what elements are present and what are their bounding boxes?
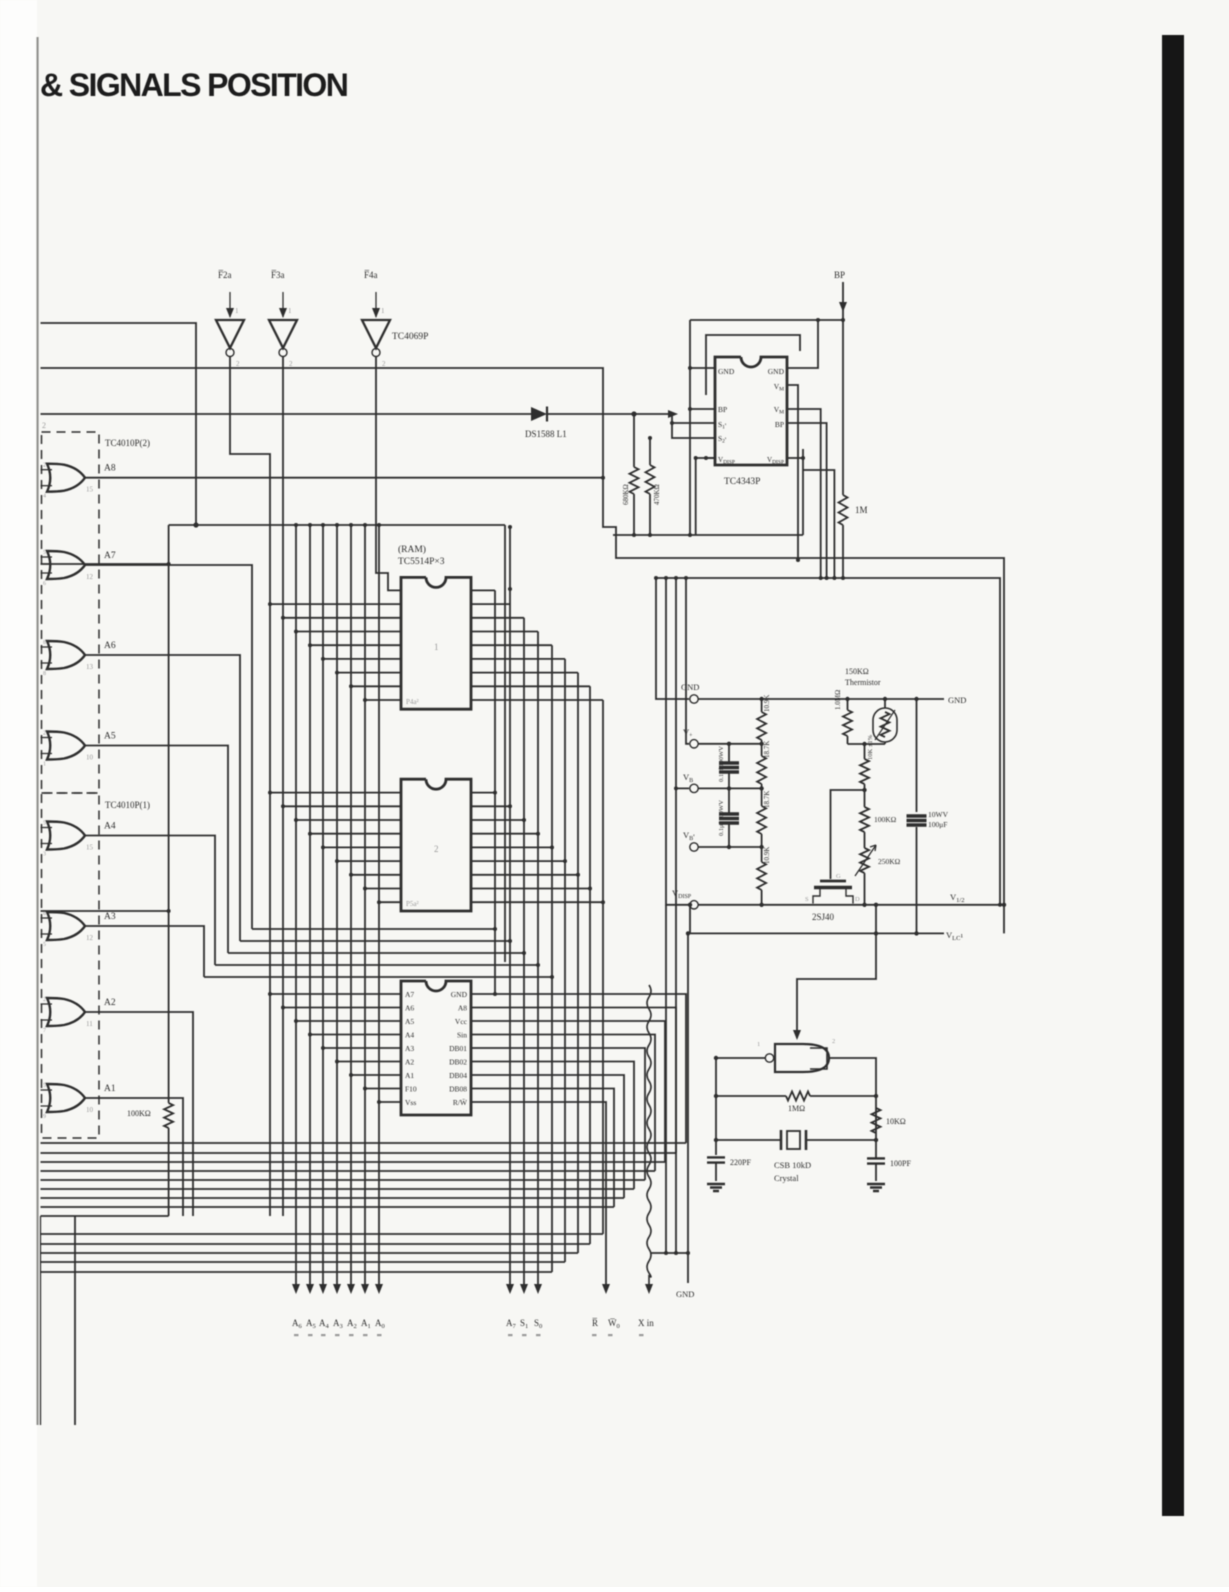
crystal X1 <box>716 1139 781 1141</box>
inverter U3c F4a <box>362 320 390 348</box>
svg-text:10WV: 10WV <box>928 810 949 819</box>
wire V+ feeder vertical <box>686 578 689 744</box>
svg-text:TC5514P×3: TC5514P×3 <box>398 557 445 567</box>
svg-text:F10: F10 <box>405 1085 417 1094</box>
svg-text:470KΩ: 470KΩ <box>653 484 661 505</box>
svg-text:BP: BP <box>718 405 727 414</box>
resistor R 10K oscillator <box>872 1108 881 1133</box>
svg-text:A8: A8 <box>458 1004 467 1013</box>
wire IC inner frame top <box>706 335 800 395</box>
svg-text:A4: A4 <box>104 822 116 832</box>
svg-text:0.1μf 100WV: 0.1μf 100WV <box>718 800 725 836</box>
svg-text:F̅2a: F̅2a <box>218 270 232 280</box>
svg-text:GND: GND <box>676 1289 694 1299</box>
wire gate A4 output <box>85 836 215 966</box>
IC RAM1 TC5514P <box>401 577 471 709</box>
svg-text:TC4069P: TC4069P <box>392 332 428 342</box>
wire inverter3 output to RAM1 pin <box>376 357 401 591</box>
wire GND drop vertical <box>687 933 689 1283</box>
svg-text:Vcc: Vcc <box>455 1017 468 1026</box>
wire IC right pin VDISP2 <box>803 470 834 578</box>
dashed IC box TC4010P(1) <box>42 793 100 1138</box>
wire left feed y564 <box>41 563 169 565</box>
capacitor C 0.1uF 100WV lower <box>728 788 730 813</box>
wire RAM right vertical bus <box>494 590 496 994</box>
svg-text:D: D <box>855 896 860 903</box>
svg-text:R/W̄: R/W̄ <box>453 1098 468 1107</box>
wire oscillator right node <box>829 1058 876 1158</box>
svg-text:8: 8 <box>43 640 46 646</box>
arrow Xin <box>645 1284 653 1294</box>
wire VDISP feeder vertical <box>666 578 689 905</box>
wire IC right pin GND2 <box>787 320 818 368</box>
svg-text:100KΩ: 100KΩ <box>127 1109 151 1118</box>
wire VLC rail <box>690 932 944 934</box>
svg-text:12: 12 <box>86 934 94 942</box>
svg-text:680KΩ: 680KΩ <box>622 484 630 505</box>
junction RAM3 feeder <box>493 992 497 996</box>
wire data wrap 4 <box>215 964 538 966</box>
svg-text:0.1μf 100WV: 0.1μf 100WV <box>718 746 725 782</box>
svg-text:F̅4a: F̅4a <box>364 270 378 280</box>
wire mid vertical x505 <box>504 525 506 962</box>
wire Xin squiggle <box>647 985 651 1284</box>
svg-text:100PF: 100PF <box>890 1159 911 1168</box>
dashed IC box TC4010P(2) <box>42 432 100 793</box>
arrows address outputs <box>292 1284 300 1294</box>
wire FET drain to VLC <box>875 905 877 934</box>
wire oscillator input <box>797 933 876 1038</box>
wire top bus to vertical x196 <box>41 323 197 525</box>
svg-text:R̅: R̅ <box>592 1318 598 1328</box>
wire oscillator left node <box>716 1057 765 1059</box>
svg-text:10: 10 <box>86 754 94 762</box>
svg-text:4: 4 <box>43 494 46 500</box>
resistor ladder R 10.9K top <box>761 699 763 712</box>
or-gate A3 <box>47 912 85 940</box>
svg-text:(RAM): (RAM) <box>398 544 426 555</box>
svg-text:7: 7 <box>43 1028 46 1034</box>
svg-text:A5: A5 <box>104 732 116 742</box>
wire gate A3 output <box>85 926 204 977</box>
IC RAM3 TC5514P <box>401 981 471 1115</box>
terminal VB2 <box>690 843 698 851</box>
svg-text:Vss: Vss <box>405 1098 416 1107</box>
svg-text:TC4010P(2): TC4010P(2) <box>105 438 150 448</box>
wire RAM2 left pins <box>270 792 401 794</box>
svg-text:5: 5 <box>43 821 46 827</box>
wire gate A8 output long line <box>85 477 603 479</box>
svg-text:10.9K: 10.9K <box>763 847 771 864</box>
svg-text:S: S <box>805 896 809 903</box>
resistor ladder R 18.7K <box>757 756 766 784</box>
wire inputs gate A2 <box>41 1003 53 1005</box>
wire inputs gate A6 <box>41 646 53 648</box>
arrow on diode line <box>668 410 678 418</box>
svg-text:GND: GND <box>768 367 785 376</box>
svg-text:X in: X in <box>638 1318 654 1328</box>
wire data wrap 3 <box>228 952 524 954</box>
potentiometer VR 250K <box>860 848 869 873</box>
svg-text:150KΩ: 150KΩ <box>845 667 869 676</box>
wire IC pin S2 route <box>672 423 715 438</box>
resistor R 1.0M <box>847 699 849 710</box>
svg-text:F̅3a: F̅3a <box>271 270 285 280</box>
svg-text:2: 2 <box>382 360 386 368</box>
resistor ladder R 10.9K bottom <box>757 862 766 890</box>
transistor Q1 2SJ40 FET <box>820 880 846 883</box>
svg-text:18.7K: 18.7K <box>763 791 771 808</box>
resistor R 100K <box>164 1103 173 1128</box>
gate U4 oscillator buffer <box>775 1044 829 1072</box>
capacitor C 220PF <box>707 1157 725 1162</box>
svg-text:Crystal: Crystal <box>774 1173 799 1183</box>
svg-text:1: 1 <box>235 307 239 315</box>
svg-text:1: 1 <box>757 1041 760 1048</box>
wire inputs gate A1 <box>41 1089 53 1091</box>
svg-text:DB01: DB01 <box>449 1044 467 1053</box>
svg-text:2: 2 <box>434 844 439 854</box>
svg-text:1MΩ: 1MΩ <box>788 1104 805 1113</box>
svg-text:BP: BP <box>834 270 845 280</box>
svg-text:A6: A6 <box>405 1004 414 1013</box>
wire gate A2 output <box>85 1012 193 1216</box>
svg-text:5: 5 <box>43 1083 46 1089</box>
wire vertical bus lines x296-379 <box>295 525 297 1284</box>
svg-text:A5: A5 <box>405 1017 414 1026</box>
wire RAM1 left pins <box>270 603 401 605</box>
diode D1 line y414 <box>41 413 532 415</box>
svg-text:P4a²: P4a² <box>406 698 419 706</box>
wire VB rail <box>698 787 762 789</box>
wire gate A6 output <box>85 655 240 941</box>
svg-text:2: 2 <box>43 463 46 469</box>
svg-text:15: 15 <box>86 486 94 494</box>
svg-text:TC4343P: TC4343P <box>724 477 760 487</box>
arrows A7 S1 S0 <box>506 1284 514 1294</box>
wire RAM2 right pins <box>471 792 495 794</box>
svg-text:DS1588 L1: DS1588 L1 <box>525 429 567 439</box>
svg-text:10.9K: 10.9K <box>763 695 771 712</box>
resistor ladder R 18.7K second <box>757 806 766 834</box>
svg-text:10KΩ: 10KΩ <box>886 1117 906 1126</box>
arrow W0 <box>602 1284 610 1294</box>
wire VB feeder vertical <box>676 578 689 788</box>
svg-text:1: 1 <box>43 762 46 768</box>
wire gate A5 output <box>85 746 228 954</box>
wire RAM3 right pins staircase <box>471 994 686 1143</box>
svg-text:9: 9 <box>43 1114 46 1120</box>
wire long horizontal y368 <box>41 368 1005 905</box>
svg-text:13: 13 <box>86 663 94 671</box>
or-gate A6 <box>47 641 85 669</box>
resistor R 470K <box>649 438 651 465</box>
wire bottom bus group <box>41 1142 687 1144</box>
or-gate A5 <box>47 732 85 760</box>
svg-text:DB02: DB02 <box>449 1058 467 1067</box>
wire inverter2 output down <box>282 357 284 1217</box>
svg-text:5: 5 <box>43 550 46 556</box>
wire inputs gate A7 <box>41 556 53 558</box>
svg-text:A2: A2 <box>104 998 116 1008</box>
svg-text:18.7K: 18.7K <box>763 741 771 758</box>
IC RAM2 TC5514P <box>401 779 471 911</box>
resistor R 100K right <box>860 807 869 832</box>
wire IC left pin BP <box>690 408 715 410</box>
wire left feed y911 <box>41 910 169 912</box>
svg-text:Sin: Sin <box>457 1031 467 1040</box>
wire horizontal y525 feeder <box>169 524 505 526</box>
svg-text:1: 1 <box>434 642 439 652</box>
wire left page vertical lower <box>74 1216 76 1425</box>
svg-text:2: 2 <box>42 421 46 430</box>
wire data wrap 5 <box>204 976 552 978</box>
svg-text:A3: A3 <box>104 912 116 922</box>
svg-text:2: 2 <box>289 360 293 368</box>
or-gate A1 <box>47 1084 85 1112</box>
svg-text:DB08: DB08 <box>449 1085 467 1094</box>
svg-text:GND: GND <box>681 682 699 692</box>
capacitor C 100uF 10WV <box>916 699 918 812</box>
svg-text:CSB 10kD: CSB 10kD <box>774 1160 811 1170</box>
svg-text:1: 1 <box>288 307 292 315</box>
wire IC label frame <box>695 458 697 535</box>
svg-text:1M: 1M <box>855 505 868 515</box>
svg-text:8: 8 <box>43 671 46 677</box>
wire inputs gate A3 <box>41 917 53 919</box>
wire gate A7 output <box>85 565 252 929</box>
capacitor C 100PF <box>867 1158 885 1163</box>
svg-text:GND: GND <box>948 695 966 705</box>
svg-text:2: 2 <box>832 1038 835 1045</box>
svg-text:A3: A3 <box>405 1044 414 1053</box>
wire VDISP rail <box>698 905 1004 934</box>
svg-text:12: 12 <box>86 573 94 581</box>
wire GND feeder vertical <box>656 578 689 699</box>
bottom label tick marks <box>294 1334 299 1336</box>
svg-text:GND: GND <box>451 990 468 999</box>
svg-text:1.0MΩ: 1.0MΩ <box>834 690 842 710</box>
wire IC left pin VDISP <box>706 457 715 459</box>
wire analog inner box <box>656 578 1000 905</box>
wire FET gate <box>831 790 865 879</box>
terminal V+ <box>690 740 698 748</box>
wire IC outer frame <box>690 319 843 321</box>
svg-text:A2: A2 <box>405 1058 414 1067</box>
wire IC bottom rail <box>613 534 803 536</box>
svg-text:1: 1 <box>381 307 385 315</box>
resistor R 1M <box>842 320 844 495</box>
capacitor C 0.1uF 100WV upper <box>728 744 730 762</box>
svg-text:250KΩ: 250KΩ <box>878 857 901 866</box>
wire IC left pin GND <box>690 367 715 369</box>
svg-text:100KΩ: 100KΩ <box>874 815 897 824</box>
or-gate A7 <box>47 551 85 579</box>
svg-text:A8: A8 <box>104 464 116 474</box>
wire V+ rail <box>698 743 762 745</box>
terminal VDISP <box>690 901 698 909</box>
svg-text:& SIGNALS POSITION: & SIGNALS POSITION <box>40 67 347 103</box>
svg-text:Thermistor: Thermistor <box>845 678 881 687</box>
page edge line left <box>36 37 38 1425</box>
wire IC right pin BP <box>787 423 827 578</box>
or-gate A4 <box>47 822 85 850</box>
svg-text:5: 5 <box>43 942 46 948</box>
svg-text:8: 8 <box>43 911 46 917</box>
wire bottom bus short line <box>41 1215 169 1217</box>
svg-text:BP: BP <box>775 420 784 429</box>
svg-text:A1: A1 <box>104 1084 116 1094</box>
svg-text:P5a²: P5a² <box>406 900 419 908</box>
diode DS1588 L1 symbol <box>531 407 547 421</box>
svg-text:A7: A7 <box>104 551 116 561</box>
wire GND rail <box>698 698 944 700</box>
svg-text:A1: A1 <box>405 1071 414 1080</box>
svg-text:220PF: 220PF <box>730 1158 751 1167</box>
wire IC right pin VM2 <box>787 409 821 578</box>
svg-text:GND: GND <box>718 367 735 376</box>
wire inputs gate A4 <box>41 827 53 829</box>
wire vertical 100K net <box>168 525 170 1103</box>
svg-text:10K ±1%: 10K ±1% <box>867 734 874 760</box>
wire RAM3 R/W pin to W0 arrow <box>471 1102 606 1284</box>
svg-text:DB04: DB04 <box>449 1071 467 1080</box>
svg-text:A4: A4 <box>405 1031 414 1040</box>
or-gate A2 <box>47 998 85 1026</box>
svg-text:100μF: 100μF <box>928 820 947 829</box>
svg-text:2: 2 <box>43 997 46 1003</box>
or-gate A8 <box>47 464 85 492</box>
svg-text:10: 10 <box>86 1106 94 1114</box>
svg-text:2: 2 <box>43 731 46 737</box>
svg-text:3: 3 <box>43 852 46 858</box>
wire data wrap 1 <box>252 928 495 930</box>
wire GND branch from Xin <box>650 1252 688 1254</box>
svg-text:TC4010P(1): TC4010P(1) <box>105 800 150 810</box>
resistor R 680K <box>633 414 635 467</box>
svg-text:2SJ40: 2SJ40 <box>812 912 835 922</box>
inverter U3b F3a <box>269 320 297 348</box>
wire inputs gate A8 <box>41 469 53 471</box>
wire IC right pin VM1 <box>787 385 798 560</box>
wire RAM3 left pins <box>270 993 401 995</box>
wire inputs gate A5 <box>41 737 53 739</box>
terminal GND <box>690 695 698 703</box>
svg-text:6: 6 <box>43 581 46 587</box>
junction x196 y525 <box>193 522 198 527</box>
wire VB2 stub <box>698 846 762 848</box>
wire gate A1 output <box>85 1098 183 1216</box>
page border black bar right <box>1162 35 1184 1516</box>
svg-text:2: 2 <box>236 360 240 368</box>
wire thermistor bottom rail <box>848 743 886 745</box>
svg-text:A7: A7 <box>405 990 414 999</box>
junction on diode line <box>631 411 636 416</box>
inverter input arrows <box>229 292 231 317</box>
resistor R 10K <box>864 744 866 759</box>
wire inverter1 output down <box>230 357 270 1217</box>
svg-text:G: G <box>836 873 841 880</box>
terminal VB <box>690 784 698 792</box>
IC U2 TC4343P <box>715 357 787 465</box>
inverter U3a F2a <box>216 320 244 348</box>
resistor R 1M feedback <box>716 1095 786 1097</box>
wire data wrap 2 <box>240 940 510 942</box>
svg-text:15: 15 <box>86 844 94 852</box>
wire RAM1 right pins staircase <box>471 589 495 591</box>
svg-text:11: 11 <box>86 1020 93 1028</box>
svg-text:A6: A6 <box>104 641 116 651</box>
